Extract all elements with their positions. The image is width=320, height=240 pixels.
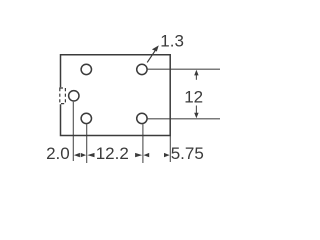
leader arrowhead for 1.3 [152, 45, 159, 51]
dim 12.2 right arrow [135, 153, 142, 157]
dim 2.0 left arrow [74, 153, 80, 157]
svg-text:5.75: 5.75 [171, 144, 204, 163]
dim 2.0 right arrow [81, 153, 86, 157]
svg-text:1.3: 1.3 [160, 32, 184, 51]
dim 12.2 left arrow [87, 153, 94, 157]
dim 5.75 right arrow [164, 153, 170, 157]
dim 12 vertical line lower segment [195, 106, 197, 114]
relay body outline [61, 55, 171, 136]
hole bottom-left [81, 113, 91, 123]
extension line V4 (below body right edge) [169, 136, 171, 163]
svg-text:12: 12 [184, 87, 203, 106]
hole bottom-right [137, 113, 147, 123]
extension line V3 (below bottom-right hole) [142, 124, 144, 163]
extension line H2 (right of bottom-right hole) [148, 118, 220, 120]
hole top-right [137, 64, 147, 74]
dim 12 down arrow [194, 113, 198, 119]
hole top-left [81, 64, 91, 74]
dashed protrusion box on left edge [60, 88, 66, 104]
hole left-middle [69, 91, 79, 101]
extension line V2 (below bottom-left hole) [86, 124, 88, 163]
svg-text:12.2: 12.2 [96, 144, 129, 163]
dim 12 up arrow [194, 70, 198, 76]
leader line for 1.3 [147, 51, 155, 63]
extension line H1 (right of top-right hole) [148, 68, 220, 70]
dim 12 vertical line upper segment [195, 75, 197, 80]
svg-text:2.0: 2.0 [46, 144, 70, 163]
dim 5.75 left arrow [144, 153, 150, 157]
extension line V1 (below left-middle hole) [72, 102, 74, 161]
